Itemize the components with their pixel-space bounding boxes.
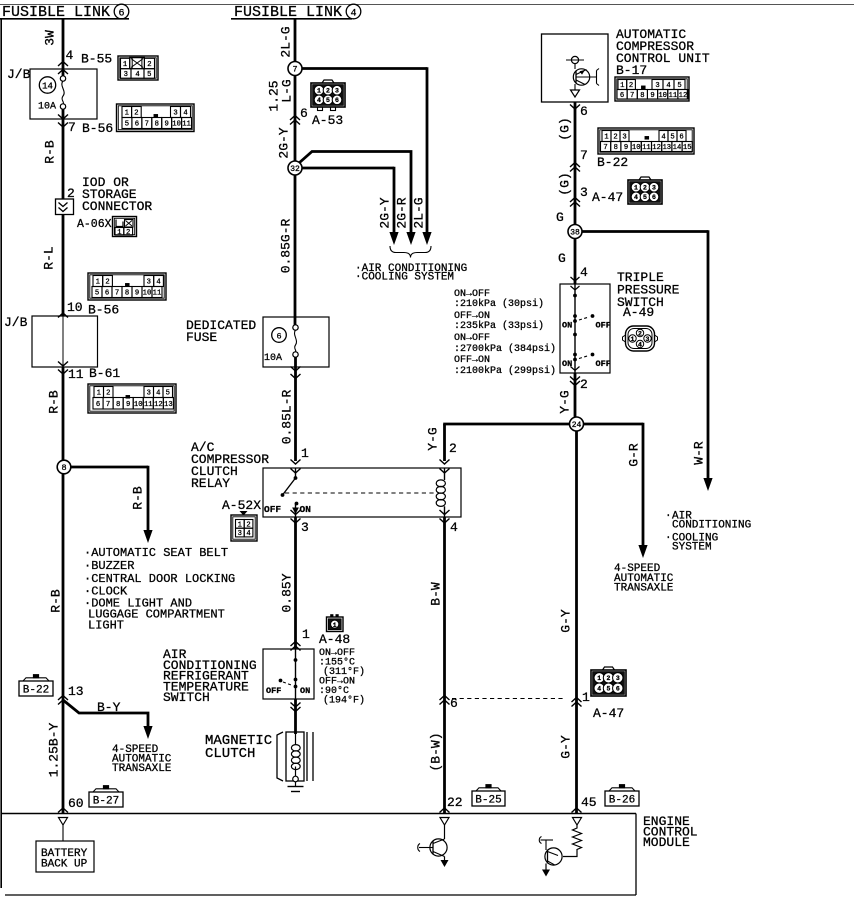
svg-text:4: 4 [666,82,670,90]
label pressure switch thresholds [454,289,556,377]
relay box A-52X [263,468,461,517]
svg-text:6: 6 [616,686,620,693]
svg-text:1: 1 [620,82,624,90]
svg-text:1: 1 [631,336,635,343]
chevron ECM pin 22 [440,808,450,813]
svg-text:1: 1 [597,675,601,682]
wire Y-G to node 24 [574,373,577,418]
svg-text:11: 11 [144,401,153,409]
svg-text:B-Y: B-Y [97,700,121,715]
wire R-B branch to accessories [71,466,149,533]
svg-text:2: 2 [147,61,151,69]
chevron ECM pin 60 [58,808,68,813]
tag B-22 [19,675,53,697]
connector pass chevron at B-55 pin 4 [58,62,68,75]
svg-text:J/B: J/B [4,315,28,330]
connector A-53 [311,80,345,111]
svg-text:1: 1 [301,446,309,461]
svg-text:9: 9 [165,121,169,129]
label engine control module [643,814,698,850]
connector A-47 lower [591,667,626,696]
svg-text:10A: 10A [38,102,56,113]
node 32 [288,161,302,175]
svg-text:·AUTOMATIC SEAT BELT: ·AUTOMATIC SEAT BELT [84,546,228,560]
svg-text:7: 7 [580,148,588,163]
svg-text:CLUTCH: CLUTCH [205,746,255,762]
svg-text:2: 2 [607,675,611,682]
svg-text:2: 2 [105,279,109,287]
chevron A-47 pin 6 [440,696,450,705]
svg-text:3: 3 [238,530,242,538]
label A-52X [222,498,261,513]
accessory list text [84,546,235,633]
triple pressure switch box A-49 [560,284,611,373]
svg-text:RELAY: RELAY [191,476,230,491]
label L-G [280,79,295,102]
svg-text:(194°F): (194°F) [323,695,365,707]
svg-text:4: 4 [350,8,356,19]
svg-text:A-48: A-48 [319,632,350,647]
svg-text:10: 10 [143,290,152,298]
label B-22 conn [597,155,628,170]
chevron relay pin 2 [440,460,450,474]
svg-text:8: 8 [125,290,129,298]
svg-text:ON→OFF: ON→OFF [454,333,490,344]
svg-text:3: 3 [655,82,659,90]
svg-text:B-26: B-26 [609,795,635,807]
svg-text:2: 2 [449,441,457,456]
wire node38 to W-R [582,230,709,478]
ground [288,782,304,792]
svg-text:1: 1 [604,134,608,142]
svg-text:2: 2 [629,82,633,90]
svg-text:11: 11 [669,92,678,100]
chevron relay pin 1 [291,460,301,474]
svg-text:BACK UP: BACK UP [41,859,88,871]
label A-48 [319,632,350,647]
label G below node38 [558,251,566,266]
dedicated fuse box [263,317,329,367]
pin 6 label [450,696,458,711]
svg-text:3: 3 [301,520,309,535]
svg-text:0.85L-R: 0.85L-R [280,389,295,444]
svg-text:14: 14 [673,144,682,152]
svg-text:B-55: B-55 [81,52,112,67]
svg-text:22: 22 [447,795,463,810]
pin 1 label temp switch [302,627,310,642]
arrowhead accessories [143,530,152,543]
ECM transistor Q1 [418,825,449,867]
label (B-W) [429,732,444,771]
svg-text:0.85Y: 0.85Y [280,573,295,612]
chevron below dedicated fuse [291,367,301,379]
pin 10 label [67,300,83,315]
svg-text:(G): (G) [558,117,573,140]
ECM pin 22 triangle [440,818,449,826]
label (G) lower [558,172,573,195]
svg-text:B-61: B-61 [89,366,120,381]
svg-text:7: 7 [630,92,634,100]
label A-48 switching temps [319,648,365,707]
connector A-52X [231,511,257,541]
wire G-Y node24 to ECM [575,431,578,813]
svg-text:1: 1 [317,88,321,95]
svg-text:B-22: B-22 [23,685,49,697]
label air conditioning refrigerant temperature switch [163,647,257,705]
svg-text:·: · [665,511,672,523]
svg-text:2: 2 [126,229,130,237]
node 8 [57,460,71,474]
svg-text::2700kPa (384psi): :2700kPa (384psi) [454,343,556,355]
svg-text:1: 1 [97,390,101,398]
svg-text:10: 10 [67,300,83,315]
ECM pin 45 triangle [573,818,582,826]
chevron below temp switch [291,703,301,712]
svg-text:12: 12 [652,144,661,152]
junction block J/B (fuse 14) [7,67,97,119]
svg-text:6: 6 [620,92,624,100]
svg-text:2: 2 [580,377,588,392]
relay coil [436,468,445,517]
chevron ECM pin 45 [572,808,582,813]
svg-text:12: 12 [679,92,688,100]
svg-text:4: 4 [661,134,665,142]
svg-text:10: 10 [172,121,181,129]
svg-text:45: 45 [581,795,597,810]
svg-text:4: 4 [317,97,321,104]
label B-Y [97,700,121,715]
pin 11 label [68,367,84,382]
brace under arrows [390,246,431,258]
pin 2 label pressure switch [580,377,588,392]
svg-text:B-25: B-25 [475,795,501,807]
pin 4 label relay [450,520,458,535]
pin 60 label [68,796,84,811]
svg-text:5: 5 [95,290,99,298]
svg-text:G: G [558,251,566,266]
label B-56 lower [88,303,119,318]
connector B-56 upper [117,104,195,132]
svg-text:5: 5 [670,134,674,142]
wire from node 7 to 2L-G arrow [302,67,427,233]
chevron at A-53 pin 6 [290,116,300,125]
pin 22 label [447,795,463,810]
connector A-47 upper [628,177,662,204]
svg-text:11: 11 [68,367,84,382]
page top border [0,4,854,6]
svg-text:OFF: OFF [264,504,281,515]
svg-text:1: 1 [123,61,127,69]
wire R-B segment [62,109,65,199]
svg-text:4: 4 [156,279,160,287]
label G-Y lower [559,735,574,759]
label A/C compressor clutch relay [191,440,269,491]
temperature switch A-48 box [263,649,314,699]
label 2G-R arrow [395,197,410,228]
svg-text:FUSE: FUSE [186,330,217,345]
svg-text:8: 8 [155,121,159,129]
svg-text:4: 4 [246,530,250,538]
svg-text:1: 1 [96,279,100,287]
svg-text:3: 3 [335,88,339,95]
svg-text:4: 4 [135,71,139,79]
wire 3W from fusible link 6 [62,19,65,76]
fusible link 6 header [0,4,129,21]
svg-text:5: 5 [677,82,681,90]
pin 2 label [67,186,75,201]
svg-text:TRANSAXLE: TRANSAXLE [112,763,172,775]
svg-text:60: 60 [68,796,84,811]
wire node32 to 2G-R arrow [299,152,411,234]
svg-text:A-47: A-47 [592,190,623,205]
svg-text:5: 5 [125,121,129,129]
svg-text:2G-Y: 2G-Y [378,197,393,228]
svg-text:14: 14 [42,82,53,92]
control unit internal circuit [566,56,599,97]
svg-text:B-W: B-W [429,582,444,606]
wire to battery backup [62,825,64,841]
pin 45 label [581,795,597,810]
label W-R [692,441,707,465]
ECM transistor Q2 [539,837,562,877]
chevron pressure switch pin 2 [570,377,580,386]
svg-text:10: 10 [632,144,641,152]
svg-text:3: 3 [124,71,128,79]
svg-text:1: 1 [333,622,337,629]
label Y-G above node 24 [558,390,573,413]
svg-text:B-56: B-56 [88,303,119,318]
node 24 [570,417,584,431]
svg-text:7: 7 [145,121,149,129]
svg-text:TRANSAXLE: TRANSAXLE [614,583,674,595]
label 4-speed automatic transaxle left [112,744,172,775]
svg-text:3: 3 [652,185,656,192]
svg-text:OFF: OFF [596,321,611,331]
svg-text:3: 3 [147,279,151,287]
svg-text:2L-G: 2L-G [279,26,294,57]
label automatic compressor control unit [616,27,710,78]
svg-text:5: 5 [607,686,611,693]
connector B-55 [118,56,158,80]
svg-text:8: 8 [61,463,66,473]
battery backup box [36,841,94,872]
label 0.85G-R [279,218,294,273]
svg-text:7: 7 [603,144,607,152]
svg-text:7: 7 [68,120,76,135]
svg-text:2L-G: 2L-G [412,197,427,228]
label dedicated fuse [186,318,256,345]
svg-text:R-B: R-B [49,589,64,613]
label A-06X [77,218,112,231]
label R-L [42,246,57,269]
svg-text:6: 6 [300,106,308,121]
chevron A-47 pin 3 [570,198,580,207]
tag B-25 [472,785,505,807]
label B-61 [89,366,120,381]
pin 13 label [68,684,84,699]
wire B-W [443,517,446,813]
svg-text:6: 6 [679,134,683,142]
svg-text:4: 4 [183,110,187,118]
svg-text:B-22: B-22 [597,155,628,170]
svg-text:ON: ON [562,359,572,369]
svg-text:2G-R: 2G-R [395,197,410,228]
svg-text:OFF: OFF [266,686,281,696]
svg-text:2: 2 [638,330,642,337]
svg-text:3: 3 [173,110,177,118]
engine control module box [1,814,636,896]
svg-text:1.25B-Y: 1.25B-Y [47,722,62,777]
wire node24 branch G-R [583,423,643,545]
ECM pin 60 triangle [59,818,68,826]
relay mechanical dashed link [285,492,437,494]
svg-text:3W: 3W [43,30,58,46]
pin 6 label control unit [580,104,588,119]
svg-text:CONDITIONING: CONDITIONING [672,520,751,532]
arrowhead G-R [638,545,647,558]
svg-text:9: 9 [126,401,130,409]
wire G node38 to pressure switch [574,239,577,285]
connector A-48 icon [327,615,344,632]
chevron into J/B 2 [58,313,68,318]
label B-56 upper [82,121,113,136]
label 0.85Y [280,573,295,612]
pin 1 label A-47 [582,690,590,705]
svg-text:J/B: J/B [7,67,31,82]
svg-text:11: 11 [182,121,191,129]
wire B-Y branch [63,700,148,729]
wire 0.85G-R [294,175,297,325]
svg-text:11: 11 [642,144,651,152]
svg-text:6: 6 [96,401,100,409]
svg-text:R-L: R-L [42,246,57,269]
svg-text:10: 10 [134,401,143,409]
svg-text:1: 1 [634,185,638,192]
label 3W [43,30,58,46]
svg-text:4: 4 [634,194,638,201]
svg-text:9: 9 [624,144,628,152]
fusible link 4 header [231,4,361,21]
svg-text:G-R: G-R [627,443,642,467]
svg-text:15: 15 [683,144,692,152]
svg-text:2G-Y: 2G-Y [277,127,292,158]
svg-text:2: 2 [643,185,647,192]
svg-text:5: 5 [147,71,151,79]
connector A-49 [623,326,658,351]
svg-text:8: 8 [640,92,644,100]
svg-text:4: 4 [450,520,458,535]
svg-text:R-B: R-B [43,140,58,164]
label 1.25B-Y [47,722,62,777]
label R-B upper [43,140,58,164]
wire Y-G relay pin2 to node 24 [443,424,569,461]
svg-text:(G): (G) [558,172,573,195]
svg-text:9: 9 [135,290,139,298]
svg-text:24: 24 [572,421,582,430]
svg-text:5: 5 [326,97,330,104]
chevron temp switch pin 1 [291,642,301,651]
svg-text:6: 6 [105,290,109,298]
label R-B branch [131,486,146,510]
connector A-06X [113,217,137,237]
label 2G-Y vertical [277,127,292,158]
relay switch [264,468,311,517]
svg-text:38: 38 [570,228,580,237]
pin 6 label A-53 [300,106,308,121]
arrowhead W-R [703,478,712,491]
svg-text:2: 2 [613,134,617,142]
chevron A-47 pin 1 [572,698,582,707]
label 4-speed automatic transaxle right [614,563,674,595]
svg-text:ON: ON [562,321,572,331]
svg-text:1: 1 [582,690,590,705]
wire node32 to 2G-Y arrow [302,167,394,233]
svg-text:R-B: R-B [131,486,146,510]
svg-text:7: 7 [115,290,119,298]
label R-B mid [47,390,62,414]
label A-53 [312,113,343,128]
svg-text:4: 4 [66,48,74,63]
svg-text::2100kPa (299psi): :2100kPa (299psi) [454,365,556,377]
arrowhead 2G-R [406,232,415,245]
svg-text:6: 6 [118,8,124,19]
svg-text:L-G: L-G [280,79,295,102]
connector B-56 lower [88,273,166,300]
svg-text:4: 4 [597,686,601,693]
svg-text:·: · [665,533,672,545]
label triple pressure switch [617,270,680,310]
svg-text:13: 13 [164,401,173,409]
tag B-26 [605,785,639,807]
label G-Y upper [559,609,574,633]
svg-text:1: 1 [302,627,310,642]
wire R-B to node 8 [62,367,65,461]
svg-text:12: 12 [154,401,163,409]
svg-text:MODULE: MODULE [643,835,690,850]
pin 3 label relay [301,520,309,535]
svg-text:32: 32 [290,165,300,174]
svg-text:A-06X: A-06X [77,218,112,231]
chevron B-22 pin 7 [570,163,580,172]
label R-B lower [49,589,64,613]
svg-text:7: 7 [106,401,110,409]
label G above node38 [556,210,564,225]
label B-55 [81,52,112,67]
svg-text:8: 8 [116,401,120,409]
svg-text:8: 8 [614,144,618,152]
svg-text:1: 1 [117,229,121,237]
label B-W [429,582,444,606]
svg-text:13: 13 [68,684,84,699]
label IOD OR STORAGE CONNECTOR [82,175,152,214]
connector B-22 [598,128,694,154]
svg-text:10: 10 [658,92,667,100]
svg-text:(B-W): (B-W) [429,732,444,771]
svg-text:W-R: W-R [692,441,707,465]
node 7 [288,62,302,76]
label A-49 [623,305,654,320]
svg-text:6: 6 [652,194,656,201]
wire temp switch to clutch [294,699,297,734]
wire 0.85L-R [294,357,297,461]
svg-text:2: 2 [326,88,330,95]
svg-text:SYSTEM: SYSTEM [672,542,712,554]
label air conditioning cooling system (arrows) [355,263,467,284]
svg-text:2: 2 [106,390,110,398]
pin 1 label relay [301,446,309,461]
automatic compressor control unit box [542,34,609,102]
chevron control unit pin 6 [570,105,580,110]
